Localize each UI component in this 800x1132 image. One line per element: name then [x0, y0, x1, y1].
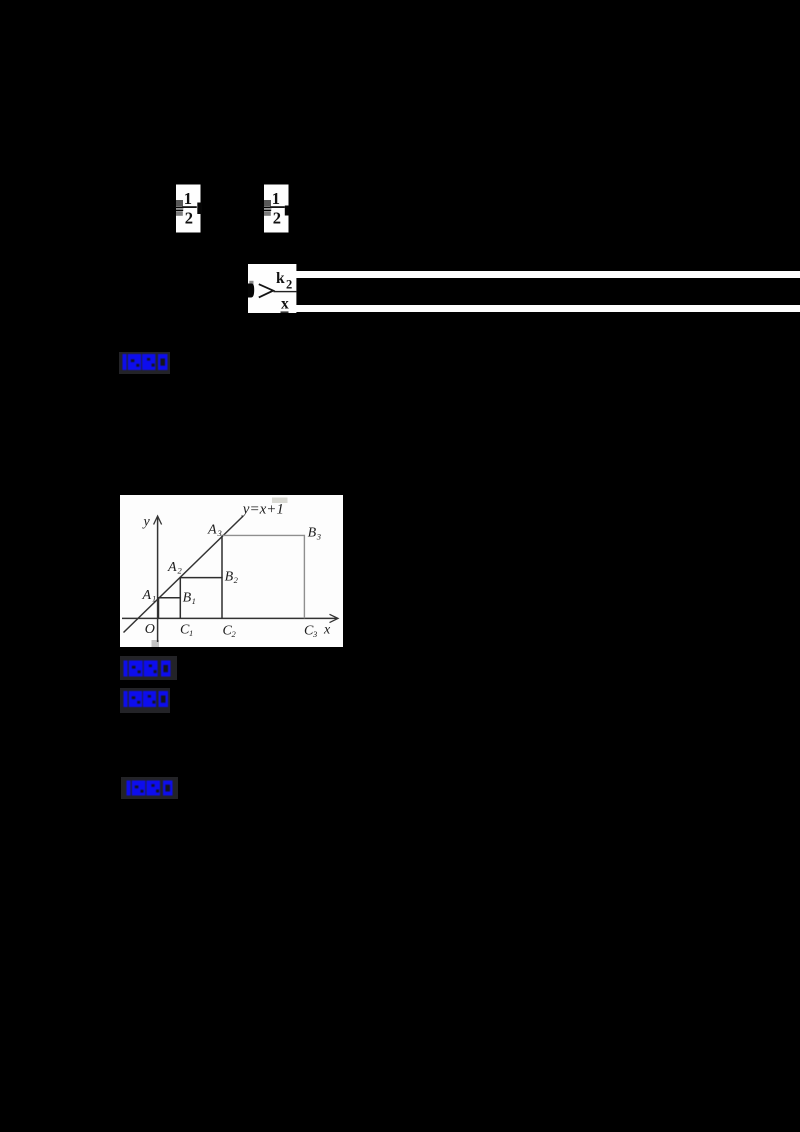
- svg-text:1: 1: [189, 628, 193, 638]
- svg-text:A: A: [142, 588, 152, 603]
- svg-text:O: O: [145, 622, 155, 637]
- svg-text:B: B: [183, 591, 192, 606]
- svg-text:3: 3: [217, 528, 222, 538]
- svg-text:x: x: [281, 295, 289, 312]
- svg-text:2: 2: [286, 277, 292, 291]
- svg-text:x: x: [323, 623, 331, 638]
- svg-text:2: 2: [234, 575, 239, 585]
- svg-text:2: 2: [185, 208, 193, 227]
- svg-text:3: 3: [312, 629, 317, 639]
- svg-text:B: B: [308, 526, 317, 541]
- svg-text:3: 3: [316, 532, 321, 542]
- svg-text:1: 1: [152, 594, 156, 604]
- svg-text:y=x+1: y=x+1: [241, 501, 284, 517]
- svg-text:y: y: [142, 515, 151, 530]
- svg-text:1: 1: [272, 188, 280, 207]
- svg-text:1: 1: [192, 596, 196, 606]
- svg-text:1: 1: [184, 188, 192, 207]
- svg-text:A: A: [207, 523, 217, 538]
- svg-text:2: 2: [273, 208, 281, 227]
- svg-text:B: B: [225, 570, 234, 585]
- svg-text:A: A: [167, 560, 177, 575]
- svg-text:k: k: [276, 269, 285, 286]
